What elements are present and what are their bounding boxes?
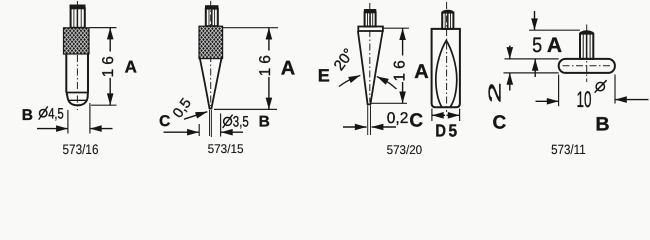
svg-text:573/16: 573/16 (63, 142, 99, 157)
svg-text:0,2: 0,2 (387, 110, 409, 127)
cylinder body fig4 (432, 29, 460, 107)
svg-text:C: C (409, 111, 423, 132)
dim 4,5 left arrow fig1 (37, 128, 68, 130)
centerline fig1 (76, 1, 78, 110)
dim 10 left arrow fig5 (536, 100, 559, 102)
dim 16 extension bottom fig2 (214, 108, 277, 110)
angle arc right with arrow fig3 (385, 80, 397, 89)
svg-text:16: 16 (257, 51, 274, 76)
dim 10 extension left fig5 (558, 75, 560, 107)
svg-text:A: A (281, 57, 295, 79)
dim 3,5 extension right fig2 (220, 114, 222, 137)
stud cap fig1 (70, 5, 86, 9)
stud cap fig2 (205, 5, 218, 8)
dim 0,2 right arrow fig3 (372, 126, 396, 128)
wedge profile curve fig4 (436, 41, 457, 107)
ball seam line fig1 (69, 99, 87, 101)
svg-text:2: 2 (485, 82, 505, 103)
dim 16 extension bottom fig3 (372, 102, 408, 104)
dim 2 extension bottom fig5 (504, 72, 559, 74)
dim 10 right arrow fig5 (615, 99, 649, 101)
dim 3,5 left arrow fig2 (164, 131, 199, 133)
svg-text:16: 16 (100, 52, 117, 77)
svg-text:573/15: 573/15 (208, 142, 244, 156)
dim 16 line with arrows fig3 (402, 28, 404, 103)
dim D5 arrows fig4 (432, 114, 445, 116)
dim 16 extension top fig3 (383, 27, 409, 29)
svg-text:5: 5 (532, 34, 542, 57)
svg-text:B: B (595, 114, 609, 136)
centerline fig4 (446, 2, 448, 112)
body cylinder fig1 (66, 54, 88, 93)
disc centerline fig5 (563, 65, 611, 67)
dim 4,5 extension left fig1 (67, 110, 69, 134)
dim 3,5 right arrow fig2 (221, 131, 243, 133)
dim D5 extension lines fig4 (431, 109, 433, 122)
dim 16 extension top fig1 (90, 27, 117, 29)
threaded stud fig3 (365, 12, 376, 26)
svg-text:16: 16 (391, 56, 408, 81)
dim 16 line with arrows fig2 (268, 28, 270, 110)
threaded stud fig1 (71, 8, 85, 28)
dim 5 bottom arrow fig5 (534, 59, 536, 77)
svg-text:3,5: 3,5 (233, 114, 249, 131)
dim 5 top arrow fig5 (534, 11, 536, 30)
threaded stud fig2 (206, 9, 218, 27)
dim 16 line with arrows fig1 (109, 28, 111, 106)
dim 4,5 right arrow fig1 (90, 128, 113, 130)
diameter symbol fig1 (40, 110, 47, 117)
dim text 16 fig2 (257, 51, 274, 78)
disc body fig5 (559, 59, 615, 73)
knurled collar fig1 (64, 28, 90, 54)
dim 16 extension bottom fig1 (91, 104, 117, 106)
dim 3,5 extension left fig2 (198, 124, 200, 136)
centerline fig3 (369, 3, 371, 102)
svg-text:A: A (547, 34, 562, 57)
svg-text:4,5: 4,5 (48, 106, 64, 123)
svg-text:B: B (259, 114, 270, 131)
dim 5 extension top fig5 (529, 29, 580, 31)
knurled collar fig2 (199, 26, 223, 58)
angle arc left with arrow fig3 (339, 79, 353, 87)
body bottom edge fig1 (66, 92, 88, 94)
cone point fig2 (200, 59, 222, 109)
stud cap fig5 (580, 30, 593, 33)
threaded stud fig4 (442, 13, 453, 29)
svg-text:A: A (414, 61, 428, 83)
stud cap fig3 (364, 9, 376, 12)
leader arrow to tip fig2 (184, 112, 207, 120)
dim text 16 fig3 (391, 56, 408, 83)
svg-text:10: 10 (577, 87, 592, 112)
dim 2 bottom arrow fig5 (509, 73, 511, 91)
dim 2 top arrow fig5 (509, 46, 511, 59)
svg-text:B: B (22, 107, 33, 124)
svg-text:20°: 20° (331, 46, 358, 74)
cone point fig3 (358, 31, 383, 104)
svg-text:573/20: 573/20 (387, 143, 423, 157)
svg-text:C: C (159, 113, 170, 130)
diameter symbol fig2 (224, 117, 232, 125)
svg-text:A: A (125, 57, 137, 76)
dim 5 extension bottom fig5 (505, 58, 559, 60)
shoulder fig3 (358, 27, 383, 32)
svg-text:D: D (435, 120, 446, 140)
dim 16 extension top fig2 (223, 27, 278, 29)
svg-text:573/11: 573/11 (551, 142, 586, 157)
ball tip fig1 (67, 93, 88, 106)
svg-text:E: E (318, 66, 330, 86)
centerline fig5 (586, 25, 588, 83)
threaded stud fig5 (580, 34, 593, 59)
dim 4,5 extension right fig1 (89, 103, 91, 134)
dim text 16 fig1 (100, 52, 117, 79)
svg-text:5: 5 (449, 120, 458, 140)
dim 10 extension right fig5 (614, 75, 616, 104)
tip extension lines fig2 (209, 110, 211, 136)
dim 0,2 left arrow fig3 (343, 126, 367, 128)
stud cap fig4 (442, 10, 453, 13)
svg-text:C: C (493, 113, 507, 134)
centerline fig2 (210, 1, 212, 106)
diameter symbol superscript fig5 (596, 82, 604, 90)
tip extension lines fig3 (367, 106, 369, 136)
